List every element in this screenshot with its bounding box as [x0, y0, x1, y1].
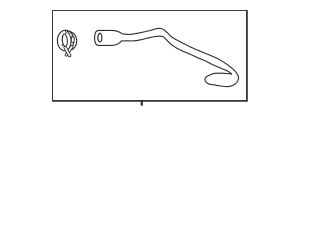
hose tube (closed outline) [116, 28, 238, 86]
clamp bottom tab right (fill) [66, 47, 71, 55]
clamp bottom tab left (dark) [65, 48, 69, 56]
clamp bottom tab right (dark) [66, 47, 71, 55]
fitting outline [95, 30, 123, 45]
clamp bottom speck [61, 44, 64, 46]
clamp hole ellipse [62, 34, 68, 47]
border frame [52, 10, 247, 101]
clamp bottom tab left (fill) [65, 48, 69, 56]
fitting hole left highlight [98, 34, 100, 42]
fitting body fill [95, 30, 123, 45]
clamp inner band edge [67, 31, 71, 50]
clamp top crease [64, 31, 67, 34]
clamp ear bracket [71, 37, 74, 43]
fitting hole [98, 33, 102, 42]
tick mark below frame [141, 101, 143, 106]
clamp outer ring [57, 30, 73, 51]
clamp side depth arc [68, 31, 77, 50]
clamp hole left accent [61, 36, 64, 41]
